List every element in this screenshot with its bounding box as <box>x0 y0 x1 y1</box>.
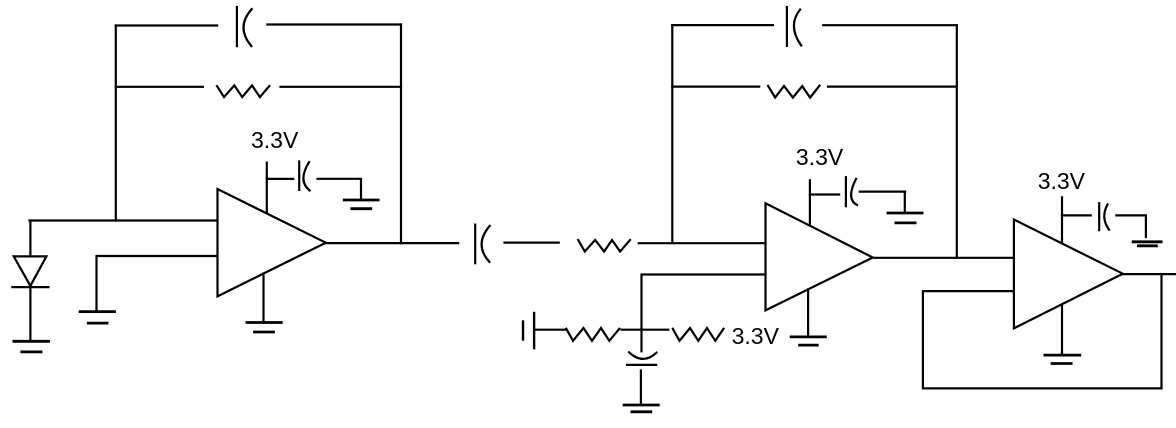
svg-text:3.3V: 3.3V <box>796 144 844 170</box>
ground (C2) <box>344 200 378 209</box>
capacitor C3 (coupling) <box>475 225 490 264</box>
op-amp U2 <box>766 203 873 310</box>
wire (C7 to ground) <box>1116 215 1146 237</box>
svg-text:3.3V: 3.3V <box>1038 168 1086 194</box>
ground (U3) <box>1045 355 1080 363</box>
ground (U1 non-inverting input) <box>80 312 114 324</box>
wire (to R3 left) <box>672 85 759 87</box>
capacitor C7 (U3 decoupling) <box>1099 203 1109 230</box>
op-amp U3 <box>1014 220 1123 329</box>
ground (C7) <box>1133 242 1161 246</box>
resistor R1 (U1 feedback) <box>217 85 269 97</box>
capacitor C4 (U2 feedback) <box>787 7 801 46</box>
wire (C2 to ground) <box>318 179 362 199</box>
wire (U1 output) <box>326 242 458 244</box>
wire (from C1 right) <box>267 23 401 25</box>
wire (U3 3.3V power pin) <box>1061 197 1063 243</box>
wire (U2 output to U3) <box>873 257 1014 259</box>
wire (U1 feedback right vertical) <box>400 25 402 244</box>
wire (to C4 left) <box>672 24 773 26</box>
ground (U2) <box>791 337 825 345</box>
wire (C3 to R2) <box>505 242 559 244</box>
resistor R3 (U2 feedback) <box>768 86 819 98</box>
wire (power to C7) <box>1062 214 1091 216</box>
wire (U2 feedback left vertical) <box>671 25 673 243</box>
wire (U1 inverting input) <box>30 219 218 221</box>
capacitor C1 (U1 feedback) <box>237 7 252 46</box>
wire (terminal to R4) <box>534 329 566 331</box>
wire (U2 ground pin) <box>807 290 809 337</box>
wire (from R3 right) <box>828 85 957 87</box>
ground (C6) <box>888 213 922 223</box>
capacitor C5 (bias bypass, vertical) <box>627 352 656 365</box>
node (bias input terminal bar short) <box>522 322 524 340</box>
wire (from C4 right) <box>823 24 957 26</box>
wire (from R1 right) <box>281 86 402 88</box>
wire (power to C6) <box>810 193 839 195</box>
wire (U1 feedback left vertical) <box>115 26 117 221</box>
svg-text:3.3V: 3.3V <box>251 127 299 153</box>
wire (U3 ground pin) <box>1061 305 1063 355</box>
ground (C5) <box>624 405 658 412</box>
wire (C5 to ground) <box>640 371 642 405</box>
resistor R5 (bias right) <box>673 328 724 341</box>
wire (U1 3.3V power pin) <box>266 163 268 213</box>
op-amp U1 <box>218 189 326 296</box>
capacitor C6 (U2 decoupling) <box>846 177 857 206</box>
wire (U1 non-inverting input) <box>97 256 218 311</box>
ground (below D1) <box>14 341 49 352</box>
resistor R2 (series input) <box>578 240 630 252</box>
wire (to R1 left) <box>116 86 203 88</box>
wire (U2 feedback right vertical) <box>956 25 958 258</box>
svg-text:3.3V: 3.3V <box>732 323 780 349</box>
wire (U1 ground pin) <box>262 274 264 322</box>
wire (R2 to U2 inverting input) <box>639 242 766 244</box>
ground (U1) <box>247 323 281 333</box>
resistor R4 (bias left) <box>566 328 619 341</box>
wire (U2 3.3V power pin) <box>809 180 811 224</box>
wire (U2 non-inverting input / bias junction vertical) <box>642 275 766 352</box>
node (bias input terminal bar long) <box>533 313 535 348</box>
capacitor C2 (U1 decoupling) <box>299 162 310 191</box>
wire (C6 to ground) <box>860 192 905 213</box>
wire (R4 to R5 through junction) <box>622 329 669 331</box>
wire (power to C2) <box>267 178 293 180</box>
wire (to C1 left) <box>116 24 217 26</box>
wire (U3 output) <box>1123 273 1176 275</box>
wire (U3 non-inverting input / feedback loop) <box>923 274 1162 388</box>
photodiode D1 <box>12 221 48 342</box>
